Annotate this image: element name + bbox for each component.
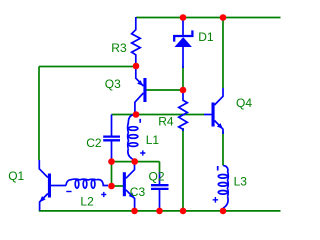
svg-text:Q4: Q4 <box>236 96 252 110</box>
svg-text:R4: R4 <box>158 115 174 129</box>
junction node L3 bottom <box>220 208 227 215</box>
wire bottom ground rail <box>39 210 281 212</box>
wire C3 top corner <box>159 162 161 172</box>
wire mid rail left (node to C2 branch) <box>112 114 137 116</box>
svg-text:C3: C3 <box>130 185 146 199</box>
L2 plus <box>101 192 106 197</box>
capacitor C2 <box>86 115 120 162</box>
junction node C2 bottom <box>108 158 115 165</box>
wire D1 bottom to node <box>182 66 184 90</box>
resistor R3 <box>111 17 140 66</box>
wire R4 bottom to ground rail <box>182 128 184 211</box>
inductor L1 <box>128 115 160 161</box>
svg-text:L1: L1 <box>146 133 160 147</box>
svg-text:Q1: Q1 <box>8 169 24 183</box>
junction node L2 / Q2 base <box>108 183 115 190</box>
zener diode D1 <box>174 18 214 68</box>
svg-text:D1: D1 <box>198 30 214 44</box>
L1 polarity tick <box>139 119 141 123</box>
junction node L1 bottom <box>131 158 138 165</box>
svg-text:R3: R3 <box>111 41 127 55</box>
wire from Q1 collector net to Q3 emitter <box>39 66 136 68</box>
wire Q4 collector to top rail <box>222 18 224 89</box>
svg-text:Q2: Q2 <box>149 170 165 184</box>
wire Q3 base to D1/R4 node <box>147 89 184 91</box>
L2 minus <box>66 191 71 193</box>
junction node D1/R4/Q3 base <box>180 87 187 94</box>
wire top rail <box>136 17 281 19</box>
L1 plus <box>140 150 145 155</box>
inductor L3 <box>213 166 248 209</box>
junction node Q3 emitter / R3 <box>133 63 140 70</box>
transistor Q4 (NPN, base left) <box>204 88 252 134</box>
L3 plus <box>213 197 218 203</box>
transistor Q2 (NPN, base left) <box>123 162 146 210</box>
junction node top Q4 <box>220 14 227 21</box>
resistor R4 <box>158 90 187 131</box>
junction node top D1 <box>180 14 187 21</box>
capacitor C3 <box>149 170 169 211</box>
svg-text:C2: C2 <box>86 136 102 150</box>
junction node mid rail <box>133 111 140 118</box>
transistor Q1 (NPN, base right) <box>8 160 66 211</box>
junction node Q2 emitter <box>131 208 138 215</box>
svg-text:L3: L3 <box>234 175 248 189</box>
wire Q2 base <box>112 185 124 187</box>
svg-text:L2: L2 <box>80 194 94 208</box>
wire mid-left rail (C2 to C3 top) <box>112 161 160 163</box>
junction node C3 bottom <box>156 208 163 215</box>
wire Q4 emitter to L3 <box>222 131 224 166</box>
svg-text:Q3: Q3 <box>105 77 121 91</box>
transistor Q3 (PNP, base right) <box>105 66 147 112</box>
wire mid rail right (node to Q4 base) <box>136 114 204 116</box>
wire left vertical <box>38 67 40 161</box>
wire C2 net vertical to L2/Q2 node <box>111 162 113 186</box>
junction node R4 bottom <box>180 208 187 215</box>
L3 polarity tick <box>217 166 219 171</box>
inductor L2 <box>66 179 108 208</box>
